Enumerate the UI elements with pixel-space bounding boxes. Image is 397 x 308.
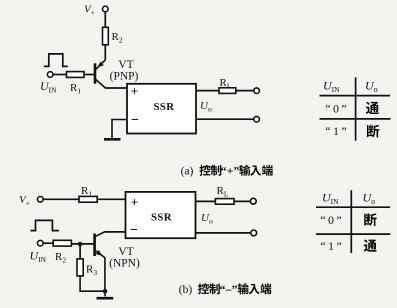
svg-text:R1: R1 bbox=[81, 185, 92, 199]
svg-text:R2: R2 bbox=[112, 31, 123, 45]
resistor RL (circuit a) bbox=[219, 77, 236, 93]
pulse waveform input (circuit b) bbox=[30, 220, 59, 230]
node U_IN input terminal (circuit a) bbox=[40, 72, 57, 95]
wire SSR output bottom to terminal (circuit b) bbox=[196, 232, 251, 234]
wire RL to terminal bbox=[236, 90, 254, 92]
transistor VT (NPN) bbox=[95, 232, 105, 258]
svg-text:R3: R3 bbox=[86, 264, 97, 278]
wire junction to ground stub bbox=[104, 291, 106, 296]
wire collector to SSR - input bbox=[104, 231, 125, 233]
svg-text:SSR: SSR bbox=[153, 101, 174, 113]
wire SSR output bottom to terminal bbox=[196, 118, 254, 120]
node junction emitter/ground bbox=[103, 289, 108, 294]
svg-text:Uo: Uo bbox=[365, 79, 378, 95]
wire RL to terminal (circuit b) bbox=[234, 200, 250, 202]
table a: cell duan (off) bbox=[367, 125, 379, 138]
svg-text:UIN: UIN bbox=[323, 79, 340, 95]
wire collector to SSR + input bbox=[105, 87, 127, 89]
wire SSR - input to ground bbox=[112, 120, 127, 139]
table b: cell tong (on) bbox=[364, 239, 377, 251]
pulse waveform input (circuit a) bbox=[44, 54, 68, 67]
svg-text:“ 1 ”: “ 1 ” bbox=[320, 239, 341, 253]
ground (circuit b) bbox=[97, 297, 114, 300]
wire junction to R3 bbox=[79, 244, 81, 259]
table a: cell tong (on) bbox=[366, 102, 379, 114]
wire R2 to emitter bbox=[104, 45, 106, 60]
resistor R1 (circuit b) bbox=[79, 185, 97, 202]
wire R1 to SSR + input (circuit b) bbox=[97, 198, 125, 200]
wire SSR output top to RL bbox=[196, 90, 219, 92]
table a: vertical rule bbox=[355, 77, 357, 140]
resistor RL (circuit b) bbox=[215, 185, 234, 204]
svg-text:SSR: SSR bbox=[151, 211, 172, 223]
node output terminal bottom (circuit a) bbox=[254, 116, 260, 122]
table b: vertical rule bbox=[350, 190, 352, 253]
node output terminal top (circuit b) bbox=[250, 198, 256, 204]
svg-text:−: − bbox=[131, 113, 139, 128]
svg-text:R1: R1 bbox=[70, 82, 81, 96]
node output terminal top (circuit a) bbox=[254, 88, 260, 94]
wire U_IN to R2 (circuit b) bbox=[43, 242, 53, 244]
table b: cell duan (off) bbox=[364, 213, 376, 226]
svg-text:VT: VT bbox=[118, 59, 133, 71]
wire R2 to base (circuit b) bbox=[71, 243, 94, 245]
transistor VT (PNP) bbox=[95, 60, 105, 88]
ground (circuit a) bbox=[104, 138, 121, 141]
svg-text:UIN: UIN bbox=[322, 191, 339, 207]
wire emitter down bbox=[104, 257, 106, 291]
svg-text:“+”: “+” bbox=[221, 164, 240, 178]
node V+ supply terminal (circuit a) bbox=[84, 4, 108, 18]
svg-text:(NPN): (NPN) bbox=[109, 258, 140, 270]
svg-text:VT: VT bbox=[118, 246, 133, 258]
svg-text:(PNP): (PNP) bbox=[110, 71, 139, 83]
label VT (NPN) bbox=[109, 246, 140, 270]
svg-text:RL: RL bbox=[217, 185, 229, 199]
svg-text:Uo: Uo bbox=[200, 100, 212, 114]
resistor R3 (vertical) bbox=[77, 259, 97, 277]
svg-text:UIN: UIN bbox=[40, 79, 57, 95]
svg-text:Uo: Uo bbox=[363, 191, 376, 207]
node junction base/R3 bbox=[78, 242, 83, 247]
label VT (PNP) bbox=[110, 59, 139, 83]
svg-text:Uo: Uo bbox=[201, 212, 213, 226]
table a: horizontal rule 2 bbox=[320, 118, 391, 120]
wire U_IN to R1 bbox=[53, 74, 67, 76]
node V+ supply terminal (circuit b) bbox=[19, 194, 43, 208]
wire SSR output top to RL (circuit b) bbox=[196, 200, 216, 202]
wire R1 to base bbox=[84, 74, 94, 76]
table a: horizontal rule 1 bbox=[320, 95, 391, 97]
svg-text:+: + bbox=[131, 84, 138, 99]
caption (a) control + input bbox=[181, 164, 273, 178]
svg-text:+: + bbox=[131, 195, 138, 210]
op-amp U1: SSR block (circuit a) bbox=[127, 84, 196, 134]
resistor R2 (circuit b) bbox=[53, 240, 71, 264]
node U_IN input terminal (circuit b) bbox=[30, 240, 47, 264]
svg-text:“ 0 ”: “ 0 ” bbox=[320, 213, 341, 227]
resistor R1 (circuit a) bbox=[67, 72, 85, 96]
resistor R2 (vertical) bbox=[103, 27, 123, 45]
caption (b) control - input bbox=[179, 282, 272, 296]
svg-text:(b): (b) bbox=[179, 284, 193, 296]
svg-text:−: − bbox=[130, 223, 138, 238]
op-amp U2: SSR block (circuit b) bbox=[126, 192, 196, 238]
node output terminal bottom (circuit b) bbox=[251, 230, 257, 236]
svg-text:V+: V+ bbox=[19, 194, 30, 208]
svg-text:R2: R2 bbox=[55, 251, 66, 265]
wire V+ to R2 bbox=[104, 12, 106, 27]
wire V+ to R1 (circuit b) bbox=[43, 198, 79, 200]
wire R3 to ground junction bbox=[80, 276, 105, 291]
svg-text:“ 1 ”: “ 1 ” bbox=[325, 124, 346, 138]
svg-text:“–”: “–” bbox=[220, 282, 238, 296]
svg-text:UIN: UIN bbox=[30, 249, 47, 265]
svg-text:(a): (a) bbox=[181, 166, 194, 178]
table b: horizontal rule 2 bbox=[316, 233, 390, 235]
svg-text:“ 0 ”: “ 0 ” bbox=[325, 101, 346, 115]
svg-text:RL: RL bbox=[220, 77, 232, 91]
svg-text:V+: V+ bbox=[84, 4, 95, 18]
table b: horizontal rule 1 bbox=[316, 206, 390, 208]
